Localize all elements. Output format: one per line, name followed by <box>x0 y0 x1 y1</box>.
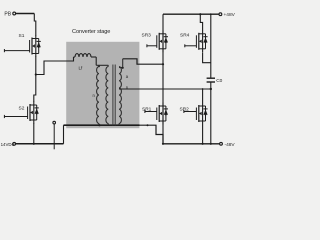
wire primary top link <box>96 64 108 66</box>
wire bottom rail output <box>163 143 220 145</box>
node tap at cap branch <box>210 88 212 90</box>
svg-text:+48V: +48V <box>224 12 236 18</box>
transformer core <box>113 65 115 126</box>
winding Ns <box>119 59 123 125</box>
terminal +48V <box>219 13 222 16</box>
mosfet SR3 <box>142 30 169 52</box>
wire left leg mid <box>35 57 37 75</box>
wire cap branch upper <box>210 14 212 78</box>
wire left output leg <box>162 14 164 144</box>
wire right leg source jog <box>203 53 211 63</box>
winding Np outer <box>97 65 99 125</box>
wire gate lead SR3 <box>147 44 157 47</box>
inductor Lf <box>74 54 97 66</box>
mosfet S1 <box>4 33 41 57</box>
node rail bottom cap <box>210 143 212 145</box>
wire gate lead SR1 <box>145 110 157 113</box>
wire bottom rail input <box>16 143 64 145</box>
node rail bottom left <box>162 143 164 145</box>
wire magnetics bottom return <box>64 124 140 126</box>
svg-text:C0: C0 <box>216 78 222 84</box>
wire top rail input <box>16 13 35 15</box>
svg-text:SR1: SR1 <box>142 107 152 113</box>
node Np polarity <box>98 65 100 67</box>
wire top rail output <box>163 13 219 15</box>
svg-text:PB: PB <box>4 12 11 18</box>
svg-text:14VDC: 14VDC <box>1 142 15 147</box>
node staircase <box>147 124 149 126</box>
node rail cap branch <box>210 13 212 15</box>
capacitor C0 <box>207 77 215 79</box>
svg-text:S1: S1 <box>19 33 25 39</box>
node rail SR4 <box>199 13 201 15</box>
terminal PB <box>13 12 16 15</box>
wire S1 drain <box>34 14 36 36</box>
svg-text:S2: S2 <box>19 106 25 112</box>
mosfet SR1 <box>142 103 168 125</box>
wire gate lead S2 <box>4 115 28 118</box>
output bridge <box>163 13 222 145</box>
wire midpoint tap <box>36 57 74 75</box>
mosfet SR4 <box>180 30 208 52</box>
svg-text:SR3: SR3 <box>142 33 152 39</box>
node Ns polarity <box>122 67 124 69</box>
mosfet S2 <box>4 102 39 124</box>
wire gate lead SR4 <box>184 44 196 47</box>
wire secondary top to left leg <box>123 59 163 64</box>
node tap at right leg <box>202 88 204 90</box>
gray block: integrated magnetics stage <box>66 42 139 128</box>
wire center tap <box>119 88 211 90</box>
wire return staircase to output rail <box>140 125 164 144</box>
svg-text:SR2: SR2 <box>180 107 190 113</box>
wire gate lead S1 <box>4 49 30 52</box>
svg-text:-48V: -48V <box>225 142 236 148</box>
wire S2 drain jog <box>34 75 36 103</box>
svg-text:Converter stage: Converter stage <box>72 29 110 35</box>
terminal 14VDC <box>13 142 16 145</box>
winding Np inner <box>106 65 108 125</box>
wire probe <box>53 124 55 149</box>
node Np bottom <box>98 124 100 126</box>
wire right leg lower source <box>202 125 204 144</box>
wire cap branch lower <box>210 82 212 143</box>
node secondary wire on leg <box>162 63 164 65</box>
mosfet SR2 <box>180 103 208 125</box>
wire gate lead SR2 <box>184 110 197 113</box>
wire right leg lower drain <box>202 89 204 103</box>
svg-text:SR4: SR4 <box>180 33 190 39</box>
terminal probe pin <box>53 121 56 124</box>
node midpoint left leg <box>35 73 37 75</box>
terminal -48V <box>220 142 223 145</box>
node S2 source rail <box>33 143 35 145</box>
wire right leg drain top <box>200 14 202 30</box>
wire S2 source <box>33 123 35 144</box>
wire riser to magnetics return <box>63 125 65 144</box>
node rail bottom SR2 <box>202 143 204 145</box>
